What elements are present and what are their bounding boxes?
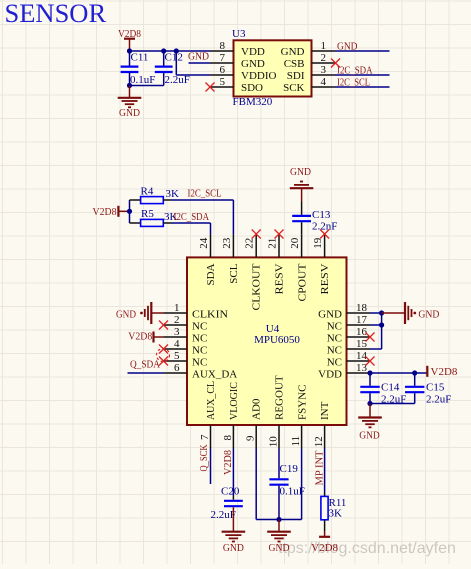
resistor R5 3K xyxy=(141,208,178,226)
svg-text:8: 8 xyxy=(222,435,234,441)
svg-text:FSYNC: FSYNC xyxy=(296,385,308,420)
svg-text:2: 2 xyxy=(321,52,327,64)
svg-text:NC: NC xyxy=(192,345,207,357)
capacitor C15 2.2uF xyxy=(405,373,451,406)
svg-text:7: 7 xyxy=(199,434,211,440)
no-connect X (U4 pin 2) xyxy=(159,321,168,330)
svg-text:V2D8: V2D8 xyxy=(311,542,338,554)
no-connect X (U3 pin 5 SDO) xyxy=(206,83,215,92)
svg-text:VDD: VDD xyxy=(241,46,265,58)
svg-text:GND: GND xyxy=(223,542,244,554)
svg-text:C19: C19 xyxy=(280,463,299,475)
svg-text:NC: NC xyxy=(327,321,342,333)
svg-text:17: 17 xyxy=(356,314,368,326)
wire C13 to U4 pin20 CPOUT xyxy=(301,222,303,234)
svg-text:SDO: SDO xyxy=(241,82,263,94)
svg-text:SDA: SDA xyxy=(205,263,217,285)
U4 pins 1-6 (left side) xyxy=(164,302,188,374)
svg-text:Q_SCK: Q_SCK xyxy=(198,444,210,471)
svg-text:U3: U3 xyxy=(232,28,246,40)
capacitor C14 2.2uF xyxy=(360,373,406,406)
svg-text:2.2nF: 2.2nF xyxy=(312,221,337,233)
svg-text:0.1uF: 0.1uF xyxy=(280,486,305,498)
svg-text:NC: NC xyxy=(192,333,207,345)
svg-text:NC: NC xyxy=(327,333,342,345)
svg-text:5: 5 xyxy=(220,76,226,88)
svg-text:8: 8 xyxy=(220,40,226,52)
svg-text:19: 19 xyxy=(312,237,324,249)
wire U3 pin3 + net label I2C_SDA xyxy=(335,64,390,76)
net label MP INT + wire (U4 pin 12 INT) xyxy=(313,449,325,493)
wire V2D8 rail to U3 VDD xyxy=(130,50,211,52)
svg-text:FBM320: FBM320 xyxy=(233,96,273,108)
svg-text:20: 20 xyxy=(289,237,301,249)
svg-text:U4: U4 xyxy=(266,323,280,335)
junction xyxy=(379,322,384,327)
svg-text:C13: C13 xyxy=(312,209,331,221)
junction xyxy=(367,401,372,406)
wire C11 bottom to C12 bottom xyxy=(130,85,164,87)
svg-text:3K: 3K xyxy=(329,507,343,519)
svg-text:5: 5 xyxy=(174,350,180,362)
svg-text:GND: GND xyxy=(241,58,265,70)
ground GND (below C14) xyxy=(358,404,382,442)
U4 pins 24-19 (top side) xyxy=(198,234,325,257)
svg-text:4: 4 xyxy=(321,76,327,88)
svg-text:V2D8: V2D8 xyxy=(128,331,152,343)
svg-text:1: 1 xyxy=(174,302,180,314)
net label Q_SCK + wire (U4 pin 7 AUX_CL) xyxy=(198,444,211,484)
svg-text:GND: GND xyxy=(116,309,136,321)
svg-text:REGOUT: REGOUT xyxy=(274,375,286,420)
power port V2D8 (VDD rail) xyxy=(427,366,458,378)
svg-text:23: 23 xyxy=(221,237,233,249)
svg-text:VDD: VDD xyxy=(318,369,342,381)
capacitor C12 2.2uF xyxy=(155,51,190,86)
wire node down to U4 pin15 xyxy=(370,313,382,349)
svg-text:CLKIN: CLKIN xyxy=(192,309,228,321)
junction xyxy=(412,370,417,375)
wire C14 bottom to C15 bottom xyxy=(370,403,415,405)
svg-text:13: 13 xyxy=(356,362,368,374)
svg-text:I2C_SCL: I2C_SCL xyxy=(188,188,222,200)
svg-text:18: 18 xyxy=(356,302,368,314)
svg-text:RESV: RESV xyxy=(319,263,331,294)
svg-text:MP INT: MP INT xyxy=(313,450,325,485)
svg-text:ttps://blog.csdn.net/ayfen: ttps://blog.csdn.net/ayfen xyxy=(278,540,456,557)
capacitor C13 2.2nF xyxy=(292,202,337,233)
svg-text:GND: GND xyxy=(119,107,140,119)
svg-text:INT: INT xyxy=(319,401,331,420)
svg-text:CSB: CSB xyxy=(284,58,305,70)
junction xyxy=(127,83,132,88)
junction xyxy=(379,310,384,315)
svg-text:9: 9 xyxy=(245,435,257,441)
svg-text:GND: GND xyxy=(418,308,439,320)
capacitor C11 0.1uF xyxy=(121,51,156,86)
svg-text:GND: GND xyxy=(281,46,305,58)
svg-text:VDDIO: VDDIO xyxy=(241,70,276,82)
svg-text:6: 6 xyxy=(174,362,180,374)
junction xyxy=(161,48,166,53)
wire rail branch to U3 VDDIO xyxy=(176,51,210,75)
svg-text:11: 11 xyxy=(290,436,302,447)
svg-text:C15: C15 xyxy=(426,382,445,394)
svg-text:AUX_DA: AUX_DA xyxy=(192,369,237,381)
svg-text:7: 7 xyxy=(220,52,226,64)
capacitor C20 2.2uF xyxy=(211,485,243,521)
svg-text:AD0: AD0 xyxy=(251,398,263,420)
svg-text:NC: NC xyxy=(192,321,207,333)
svg-text:GND: GND xyxy=(269,542,290,554)
svg-text:NC: NC xyxy=(327,345,342,357)
wire U4 pin13 VDD rail xyxy=(370,372,427,374)
svg-text:I2C_SDA: I2C_SDA xyxy=(174,211,210,223)
net label I2C_SDA xyxy=(174,211,210,223)
svg-text:4: 4 xyxy=(174,338,180,350)
wire U4 pin9 AD0 to gnd node xyxy=(256,449,301,520)
svg-text:6: 6 xyxy=(220,64,226,76)
net label V2D8 + wire (U4 pin 8 VLOGIC) xyxy=(222,449,234,496)
svg-text:C14: C14 xyxy=(381,382,400,394)
svg-text:15: 15 xyxy=(356,338,368,350)
svg-text:24: 24 xyxy=(198,237,210,249)
svg-text:C20: C20 xyxy=(221,485,240,497)
no-connect X (U4 pin 19) xyxy=(320,230,329,239)
junction xyxy=(367,370,372,375)
no-connect X (U4 pin 22) xyxy=(252,230,261,239)
svg-text:VLOGIC: VLOGIC xyxy=(228,382,240,420)
resistor R11 3K xyxy=(321,492,347,531)
no-connect X (U4 pin 4) xyxy=(159,345,168,354)
svg-text:C12: C12 xyxy=(165,51,183,63)
no-connect X (U4 pin 21) xyxy=(275,230,284,239)
watermark xyxy=(278,540,456,557)
power port V2D8 (U4 pin 3) xyxy=(128,331,163,343)
svg-text:2: 2 xyxy=(174,314,180,326)
svg-text:3K: 3K xyxy=(166,188,180,200)
U3 pins 1,2,3,4 (right side) xyxy=(312,40,336,88)
svg-text:R5: R5 xyxy=(141,208,154,220)
svg-text:2.2uF: 2.2uF xyxy=(211,509,236,521)
power port V2D8 (top rail) xyxy=(118,28,141,51)
svg-text:C11: C11 xyxy=(131,51,149,63)
svg-text:AUX_CL: AUX_CL xyxy=(205,381,217,420)
IC U3 FBM320 xyxy=(232,28,312,108)
svg-text:21: 21 xyxy=(267,238,279,249)
svg-text:Q_SDA: Q_SDA xyxy=(130,358,160,370)
wire U4 pin17 to node xyxy=(370,324,382,326)
svg-text:GND: GND xyxy=(188,51,209,63)
svg-text:SENSOR: SENSOR xyxy=(5,0,107,28)
svg-text:16: 16 xyxy=(356,326,368,338)
wire U3 pin4 + net label I2C_SCL xyxy=(335,76,390,88)
ground GND (below C19 node) xyxy=(267,520,291,555)
svg-text:NC: NC xyxy=(192,357,207,369)
svg-text:RESV: RESV xyxy=(274,263,286,294)
wire U3 pin1 + net label GND xyxy=(335,40,390,52)
svg-text:3: 3 xyxy=(321,64,327,76)
svg-text:GND: GND xyxy=(290,166,311,178)
ground GND (right of U4 pin 18) xyxy=(382,302,440,324)
ground GND (below C11) xyxy=(118,86,142,120)
U3 pins 8,7,6,5 (left side) xyxy=(210,40,234,88)
capacitor C19 0.1uF xyxy=(269,449,304,520)
wire U4 pin18 to GND xyxy=(370,312,382,314)
wire R4 to U4 pin23 SCL xyxy=(163,200,233,234)
junction xyxy=(127,48,132,53)
svg-text:22: 22 xyxy=(244,238,256,249)
svg-text:12: 12 xyxy=(313,436,325,447)
wire U4 pin11 FSYNC to gnd node xyxy=(301,449,303,520)
svg-text:2.2uF: 2.2uF xyxy=(426,394,451,406)
ground GND (below C20) xyxy=(222,507,246,554)
svg-text:SCK: SCK xyxy=(283,82,304,94)
svg-text:0.1uF: 0.1uF xyxy=(130,74,155,86)
svg-text:V2D8: V2D8 xyxy=(431,366,458,378)
wire R5 to U4 pin24 SDA xyxy=(163,223,210,234)
junction xyxy=(276,517,281,522)
svg-text:3: 3 xyxy=(174,326,180,338)
no-connect X (U4 pin 16) xyxy=(366,333,375,342)
svg-text:CPOUT: CPOUT xyxy=(296,263,308,301)
IC U4 MPU6050 xyxy=(187,257,347,425)
power port V2D8 (resistor divider) xyxy=(93,206,130,218)
schematic title SENSOR xyxy=(5,0,107,28)
error marker (dashed circle U4 pin 5) xyxy=(157,349,170,362)
resistor R4 3K xyxy=(141,186,180,204)
ground GND (U4 pin 1 CLKIN) xyxy=(116,302,164,324)
svg-text:CLKOUT: CLKOUT xyxy=(251,263,263,310)
net label Q_SDA + wire (U4 pin 6 AUX_DA) xyxy=(128,358,164,373)
svg-text:GND: GND xyxy=(337,40,358,52)
svg-text:V2D8: V2D8 xyxy=(93,206,117,218)
power port V2D8 (below R11) xyxy=(311,531,338,554)
svg-text:V2D8: V2D8 xyxy=(222,450,234,475)
U4 pins 18-13 (right side) xyxy=(347,302,371,374)
svg-text:10: 10 xyxy=(268,436,280,448)
junction xyxy=(127,209,132,214)
U4 pins 7-12 (bottom side) xyxy=(199,425,325,449)
no-connect X (U3 pin 2) xyxy=(331,59,340,68)
net label GND (U3 pin 7) xyxy=(188,51,210,63)
svg-text:SDI: SDI xyxy=(287,70,305,82)
svg-text:14: 14 xyxy=(356,350,368,362)
ground GND (above C13) xyxy=(290,166,314,202)
no-connect X (U4 pin 5) xyxy=(159,357,168,366)
svg-text:GND: GND xyxy=(318,309,342,321)
net label I2C_SCL xyxy=(188,188,222,200)
svg-text:MPU6050: MPU6050 xyxy=(254,334,300,346)
svg-text:NC: NC xyxy=(327,357,342,369)
no-connect X (U4 pin 14) xyxy=(366,357,375,366)
svg-text:R4: R4 xyxy=(141,186,154,198)
svg-text:SCL: SCL xyxy=(228,263,240,283)
svg-text:GND: GND xyxy=(359,430,380,442)
svg-text:1: 1 xyxy=(321,40,327,52)
svg-text:I2C_SCL: I2C_SCL xyxy=(337,76,370,88)
wire R4/R5 common xyxy=(130,200,141,223)
junction xyxy=(174,48,179,53)
svg-text:I2C_SDA: I2C_SDA xyxy=(337,64,373,76)
